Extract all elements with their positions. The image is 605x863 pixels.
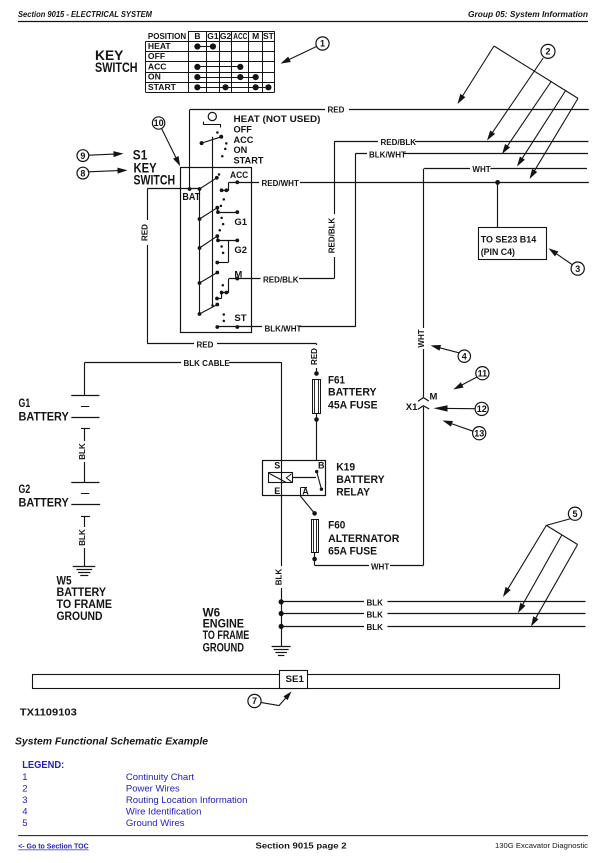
svg-text:RED/BLK: RED/BLK	[263, 275, 299, 284]
svg-text:9: 9	[80, 151, 85, 161]
svg-text:TO FRAME: TO FRAME	[57, 599, 113, 611]
svg-text:Power Wires: Power Wires	[126, 784, 180, 795]
svg-text:RED/BLK: RED/BLK	[328, 218, 337, 254]
svg-text:G2: G2	[220, 31, 232, 41]
svg-text:GROUND: GROUND	[57, 611, 103, 623]
svg-text:Wire Identification: Wire Identification	[126, 807, 202, 818]
svg-text:BATTERY: BATTERY	[57, 587, 107, 599]
svg-text:BLK: BLK	[367, 623, 384, 632]
svg-text:Routing Location Information: Routing Location Information	[126, 795, 247, 806]
svg-text:65A FUSE: 65A FUSE	[328, 545, 377, 557]
svg-text:Section 9015 page 2: Section 9015 page 2	[256, 840, 347, 850]
svg-text:RED: RED	[310, 348, 319, 365]
svg-text:G2: G2	[234, 245, 247, 256]
svg-text:BLK: BLK	[367, 599, 384, 608]
svg-text:RELAY: RELAY	[336, 486, 370, 498]
svg-text:K19: K19	[336, 461, 355, 473]
svg-text:ALTERNATOR: ALTERNATOR	[328, 533, 399, 545]
svg-text:B: B	[194, 31, 200, 41]
svg-text:START: START	[234, 156, 264, 166]
svg-text:5: 5	[22, 818, 27, 829]
svg-text:130G Excavator Diagnostic: 130G Excavator Diagnostic	[495, 841, 588, 850]
svg-text:ACC: ACC	[230, 170, 248, 181]
svg-text:ACC: ACC	[233, 31, 247, 41]
svg-text:Section 9015 - ELECTRICAL SYST: Section 9015 - ELECTRICAL SYSTEM	[18, 10, 152, 19]
svg-text:ST: ST	[263, 31, 275, 41]
svg-text:Continuity Chart: Continuity Chart	[126, 772, 194, 783]
svg-text:S: S	[274, 460, 280, 470]
svg-text:13: 13	[474, 428, 484, 438]
svg-text:BLK/WHT: BLK/WHT	[265, 324, 302, 333]
svg-text:HEAT: HEAT	[148, 41, 172, 51]
svg-text:Group 05: System Information: Group 05: System Information	[468, 10, 588, 19]
svg-text:M: M	[430, 392, 438, 403]
svg-text:F61: F61	[328, 375, 345, 387]
svg-text:RED: RED	[197, 340, 214, 349]
svg-text:TX1109103: TX1109103	[20, 708, 77, 719]
svg-text:WHT: WHT	[472, 165, 490, 174]
svg-text:HEAT (NOT USED): HEAT (NOT USED)	[234, 114, 321, 124]
svg-text:RED/WHT: RED/WHT	[262, 179, 299, 188]
svg-text:2: 2	[545, 47, 550, 57]
svg-text:RED: RED	[141, 224, 150, 241]
svg-text:RED: RED	[328, 106, 345, 115]
svg-text:12: 12	[477, 404, 487, 414]
svg-text:BLK: BLK	[78, 443, 87, 460]
svg-text:G1: G1	[207, 31, 219, 41]
svg-text:OFF: OFF	[148, 51, 165, 61]
svg-text:(PIN C4): (PIN C4)	[481, 247, 515, 257]
svg-text:7: 7	[252, 696, 257, 706]
svg-text:X1: X1	[406, 402, 418, 413]
svg-text:F60: F60	[328, 520, 345, 532]
svg-text:BLK/WHT: BLK/WHT	[369, 150, 406, 159]
svg-text:2: 2	[22, 784, 27, 795]
svg-text:11: 11	[478, 368, 488, 378]
svg-text:ON: ON	[234, 145, 248, 155]
svg-text:ACC: ACC	[148, 61, 167, 71]
svg-text:BATTERY: BATTERY	[19, 496, 69, 510]
svg-text:1: 1	[22, 772, 27, 783]
svg-text:BATTERY: BATTERY	[328, 386, 377, 398]
svg-text:WHT: WHT	[417, 329, 426, 347]
svg-text:ON: ON	[148, 72, 161, 82]
svg-text:SWITCH: SWITCH	[134, 173, 176, 188]
svg-text:8: 8	[80, 168, 85, 178]
svg-text:4: 4	[462, 351, 467, 361]
svg-text:45A FUSE: 45A FUSE	[328, 399, 378, 411]
svg-text:W5: W5	[57, 575, 73, 587]
svg-text:G1: G1	[19, 396, 31, 410]
svg-text:TO SE23 B14: TO SE23 B14	[481, 234, 537, 244]
svg-text:LEGEND:: LEGEND:	[22, 760, 64, 771]
svg-text:SWITCH: SWITCH	[95, 59, 138, 75]
svg-text:SE1: SE1	[286, 674, 305, 684]
svg-text:3: 3	[575, 264, 580, 274]
svg-text:WHT: WHT	[371, 562, 389, 571]
svg-text:B: B	[318, 461, 325, 471]
svg-text:ST: ST	[234, 313, 246, 324]
svg-text:RED/BLK: RED/BLK	[381, 138, 417, 147]
svg-text:BATTERY: BATTERY	[336, 474, 385, 486]
svg-text:1: 1	[320, 39, 325, 49]
svg-text:G1: G1	[234, 217, 247, 228]
svg-text:E: E	[274, 486, 280, 496]
svg-text:W6: W6	[203, 607, 221, 619]
svg-text:ENGINE: ENGINE	[203, 619, 245, 631]
svg-text:System Functional Schematic Ex: System Functional Schematic Example	[15, 736, 208, 748]
svg-text:BLK: BLK	[275, 569, 284, 586]
svg-text:BATTERY: BATTERY	[19, 410, 69, 424]
svg-text:<- Go to Section TOC: <- Go to Section TOC	[18, 844, 88, 851]
svg-text:BLK: BLK	[367, 610, 384, 619]
svg-text:M: M	[252, 31, 259, 41]
svg-text:ACC: ACC	[234, 135, 254, 145]
svg-text:G2: G2	[19, 482, 31, 496]
svg-text:START: START	[148, 82, 177, 92]
svg-text:BAT: BAT	[182, 192, 200, 203]
svg-text:OFF: OFF	[234, 124, 253, 134]
svg-text:BLK CABLE: BLK CABLE	[184, 359, 231, 368]
svg-text:3: 3	[22, 795, 27, 806]
svg-text:10: 10	[154, 118, 164, 128]
svg-text:BLK: BLK	[78, 529, 87, 546]
svg-text:POSITION: POSITION	[148, 31, 186, 41]
svg-text:4: 4	[22, 807, 27, 818]
svg-text:TO FRAME: TO FRAME	[203, 630, 250, 642]
svg-text:Ground Wires: Ground Wires	[126, 818, 185, 829]
svg-text:5: 5	[572, 509, 577, 519]
svg-text:GROUND: GROUND	[203, 642, 244, 654]
